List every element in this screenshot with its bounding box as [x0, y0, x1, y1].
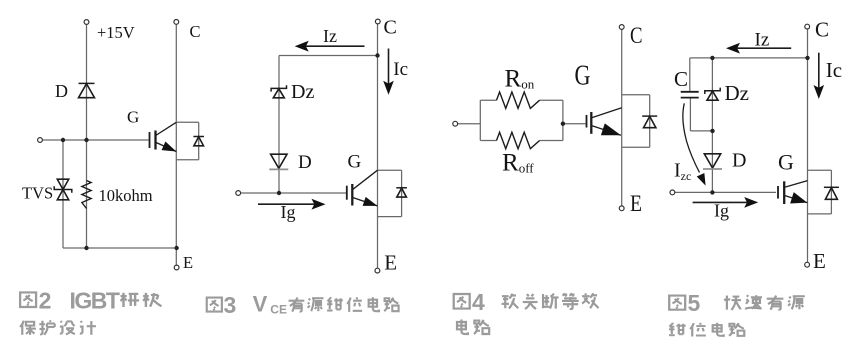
svg-text:D: D	[732, 149, 746, 171]
svg-text:G: G	[575, 61, 591, 92]
svg-text:Dz: Dz	[725, 81, 750, 105]
svg-text:+15V: +15V	[97, 23, 135, 42]
svg-text:4: 4	[472, 289, 485, 315]
svg-text:Ig: Ig	[281, 202, 296, 222]
svg-text:E: E	[183, 253, 193, 272]
svg-text:C: C	[190, 22, 201, 41]
svg-text:3: 3	[224, 292, 237, 318]
svg-text:G: G	[348, 151, 362, 172]
svg-text:E: E	[813, 249, 826, 273]
svg-text:C: C	[674, 67, 688, 91]
svg-text:Iz: Iz	[755, 29, 770, 50]
svg-text:IGBT: IGBT	[70, 287, 120, 313]
svg-text:10kohm: 10kohm	[99, 186, 153, 205]
svg-text:Iz: Iz	[323, 26, 337, 46]
svg-text:Ig: Ig	[714, 200, 729, 220]
svg-text:G: G	[127, 108, 139, 127]
svg-text:E: E	[630, 191, 642, 216]
svg-text:Ic: Ic	[826, 58, 842, 82]
svg-text:CE: CE	[270, 302, 287, 316]
svg-text:Dz: Dz	[291, 81, 314, 103]
svg-text:D: D	[55, 81, 68, 101]
svg-text:5: 5	[688, 290, 701, 316]
svg-text:D: D	[298, 152, 312, 173]
svg-text:C: C	[815, 18, 829, 42]
svg-text:G: G	[778, 149, 794, 174]
svg-text:C: C	[384, 17, 397, 39]
svg-text:V: V	[253, 292, 268, 317]
svg-text:2: 2	[39, 287, 52, 313]
svg-text:TVS: TVS	[22, 184, 53, 203]
svg-text:C: C	[630, 23, 643, 48]
svg-text:Ic: Ic	[393, 59, 408, 80]
svg-text:E: E	[384, 250, 397, 274]
